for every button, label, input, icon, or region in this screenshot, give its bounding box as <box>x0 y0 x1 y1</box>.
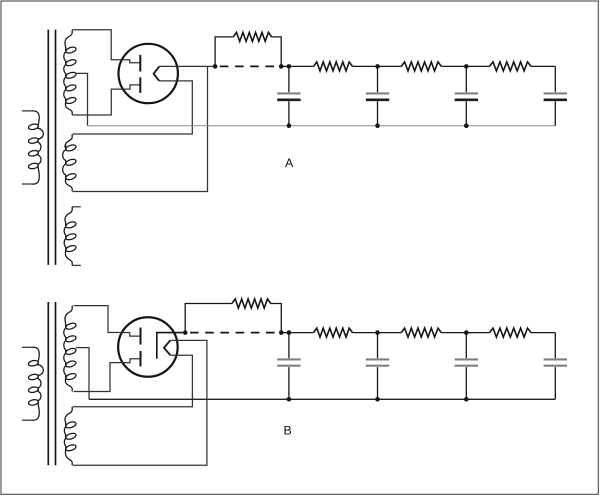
tube V2 plate 1 <box>140 328 142 345</box>
resistor R1 <box>215 37 233 67</box>
wire R6 to node (B) <box>353 332 402 334</box>
transformer T2 primary winding <box>22 346 32 348</box>
capacitor C1 <box>288 66 290 92</box>
wire R2 to node 2 <box>353 65 402 67</box>
dashed choke position (circuit A) <box>220 65 281 67</box>
junction: C7 top node <box>464 330 469 335</box>
junction: C2 ground node <box>375 123 380 128</box>
capacitor C3 <box>465 66 467 92</box>
resistor R3 <box>401 62 441 71</box>
transformer T1 core (laminations) <box>47 30 49 265</box>
rectifier tube V2 envelope <box>118 317 178 377</box>
junction: R5 left / cathode output <box>183 330 188 335</box>
wire HV center tap to ground rail (B) <box>76 348 89 400</box>
wire node to first capacitor <box>281 65 313 67</box>
transformer T1 primary winding <box>22 110 32 112</box>
capacitor C8 <box>554 333 556 359</box>
transformer T1 amplifier filament winding <box>72 206 81 208</box>
junction: C1 ground node <box>287 123 292 128</box>
junction: C7 ground node <box>464 397 469 402</box>
junction: C5 top node <box>287 330 292 335</box>
resistor R2 <box>314 62 353 71</box>
junction: C1 top node <box>287 64 292 69</box>
transformer T2 high-voltage secondary winding <box>64 306 72 392</box>
wire heater top to filament winding bottom <box>73 340 207 465</box>
wire HV secondary bottom to plate 2 <box>72 85 139 115</box>
wire filament top to output node <box>159 65 215 67</box>
wire HV secondary bottom to plate 2 (B) <box>73 359 139 392</box>
tube V1 plate 1 <box>139 55 141 72</box>
junction: C6 ground node <box>375 397 380 402</box>
wire node to first capacitor (B) <box>281 332 313 334</box>
wire HV secondary top to plate 1 (B) <box>73 306 139 337</box>
tube V2 cathode <box>157 333 185 359</box>
tube V1 filament <box>154 66 160 81</box>
capacitor C7 <box>465 333 467 359</box>
capacitor C6 <box>377 333 379 359</box>
resistor R6 <box>314 328 353 337</box>
transformer T1 high-voltage secondary winding <box>64 30 72 115</box>
resistor R5 <box>185 304 232 333</box>
junction: R1 right / dashed end <box>279 64 284 69</box>
svg-text:B: B <box>284 424 292 438</box>
wire R8 to last capacitor (B) <box>531 332 555 334</box>
transformer T2 rectifier filament winding <box>64 407 72 466</box>
wire output node down to filament winding bottom <box>73 66 208 191</box>
junction: C3 top node <box>464 64 469 69</box>
junction: C5 ground node <box>287 397 292 402</box>
transformer T2 core (laminations) <box>47 302 49 465</box>
wire filament bottom to winding <box>73 81 193 134</box>
ground return rail (circuit B) <box>89 398 555 400</box>
capacitor C2 <box>377 66 379 92</box>
ground return rail (circuit A) <box>88 125 556 127</box>
svg-text:A: A <box>285 156 294 170</box>
tube V2 plate 2 <box>140 351 142 367</box>
wire R7 to node (B) <box>441 332 489 334</box>
junction: C6 top node <box>375 330 380 335</box>
wire HV center tap to ground rail <box>76 73 88 125</box>
transformer T1 rectifier filament winding <box>63 134 73 192</box>
junction: C2 top node <box>375 64 380 69</box>
wire heater bottom to filament winding top <box>73 355 193 407</box>
tube V2 filament heater <box>164 340 170 355</box>
tube V1 plate 2 <box>139 77 141 93</box>
resistor R7 <box>401 328 441 337</box>
capacitor C4 <box>554 66 556 92</box>
wire R4 to last capacitor <box>531 65 555 67</box>
rectifier tube V1 envelope <box>119 44 178 103</box>
junction: R5 right / dashed end <box>279 330 284 335</box>
resistor R8 <box>490 328 532 337</box>
capacitor C5 <box>288 333 290 359</box>
wire R3 to node 3 <box>441 65 489 67</box>
dashed choke position (circuit B) <box>190 332 281 334</box>
wire HV secondary top to plate 1 <box>72 30 139 63</box>
junction: R1 left / tube output <box>213 64 218 69</box>
junction: C3 ground node <box>464 123 469 128</box>
resistor R4 <box>490 62 532 71</box>
